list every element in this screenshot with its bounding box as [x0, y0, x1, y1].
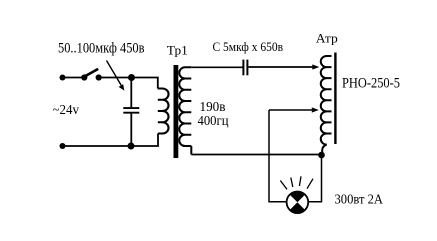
terminal dot bottom-left (~24v -) — [60, 143, 66, 149]
terminal dot top-left (~24v +) — [60, 75, 66, 81]
svg-text:300вт 2А: 300вт 2А — [335, 192, 384, 207]
arrowhead mid tap — [312, 107, 319, 112]
autotransformer ATr core — [334, 53, 336, 145]
arrowhead top tap — [312, 64, 319, 69]
node J1 junction dot — [128, 74, 135, 81]
leader arrow from label to C1 — [107, 61, 123, 88]
svg-text:400гц: 400гц — [198, 114, 229, 129]
wire J1 to Tr1 primary top — [132, 78, 158, 89]
wire J2 to Tr1 primary bottom — [131, 134, 158, 147]
lamp rays — [280, 176, 313, 189]
capacitor C1 plates — [123, 107, 139, 109]
capacitor C1 bottom lead — [130, 114, 132, 146]
lamp EL1 circle — [287, 192, 309, 214]
switch S1 right contact dot — [96, 74, 102, 80]
switch S1 lever — [85, 69, 98, 76]
svg-text:50..100мкф 450в: 50..100мкф 450в — [58, 41, 145, 57]
capacitor C1 top lead — [130, 78, 132, 108]
switch S1 left contact dot — [81, 74, 87, 80]
transformer Tr1 primary winding (4 loops, bulge right) — [158, 89, 169, 134]
svg-text:190в: 190в — [200, 100, 226, 115]
transformer Tr1 secondary winding (7 loops, bulge left) — [179, 67, 191, 154]
node J3 junction dot — [318, 152, 325, 159]
wire bottom-left — [63, 145, 132, 147]
node J2 junction dot — [128, 143, 135, 150]
wire J3 down to lamp right — [309, 155, 322, 202]
svg-text:Атр: Атр — [316, 30, 338, 45]
capacitor C plates — [242, 60, 244, 76]
transformer Tr1 core — [174, 65, 179, 158]
svg-text:РНО-250-5: РНО-250-5 — [342, 75, 400, 91]
wire secondary top to capacitor C — [191, 66, 242, 68]
autotransformer ATr winding (8 loops, bulge left) — [321, 56, 332, 155]
lamp EL1 filled sectors (top and bottom quadrants) — [290, 191, 306, 213]
wire top-left — [63, 77, 85, 79]
wire mid tap — [269, 109, 313, 111]
wire capacitor C to autotransformer top tap — [248, 66, 313, 68]
svg-text:С 5мкф х 650в: С 5мкф х 650в — [213, 39, 284, 54]
wire switch to node J1 — [99, 77, 132, 79]
wire tap down to lamp left — [269, 110, 286, 202]
svg-text:Тр1: Тр1 — [167, 42, 188, 57]
svg-text:~24v: ~24v — [53, 103, 80, 118]
wire secondary bottom to node J3 — [191, 154, 321, 156]
